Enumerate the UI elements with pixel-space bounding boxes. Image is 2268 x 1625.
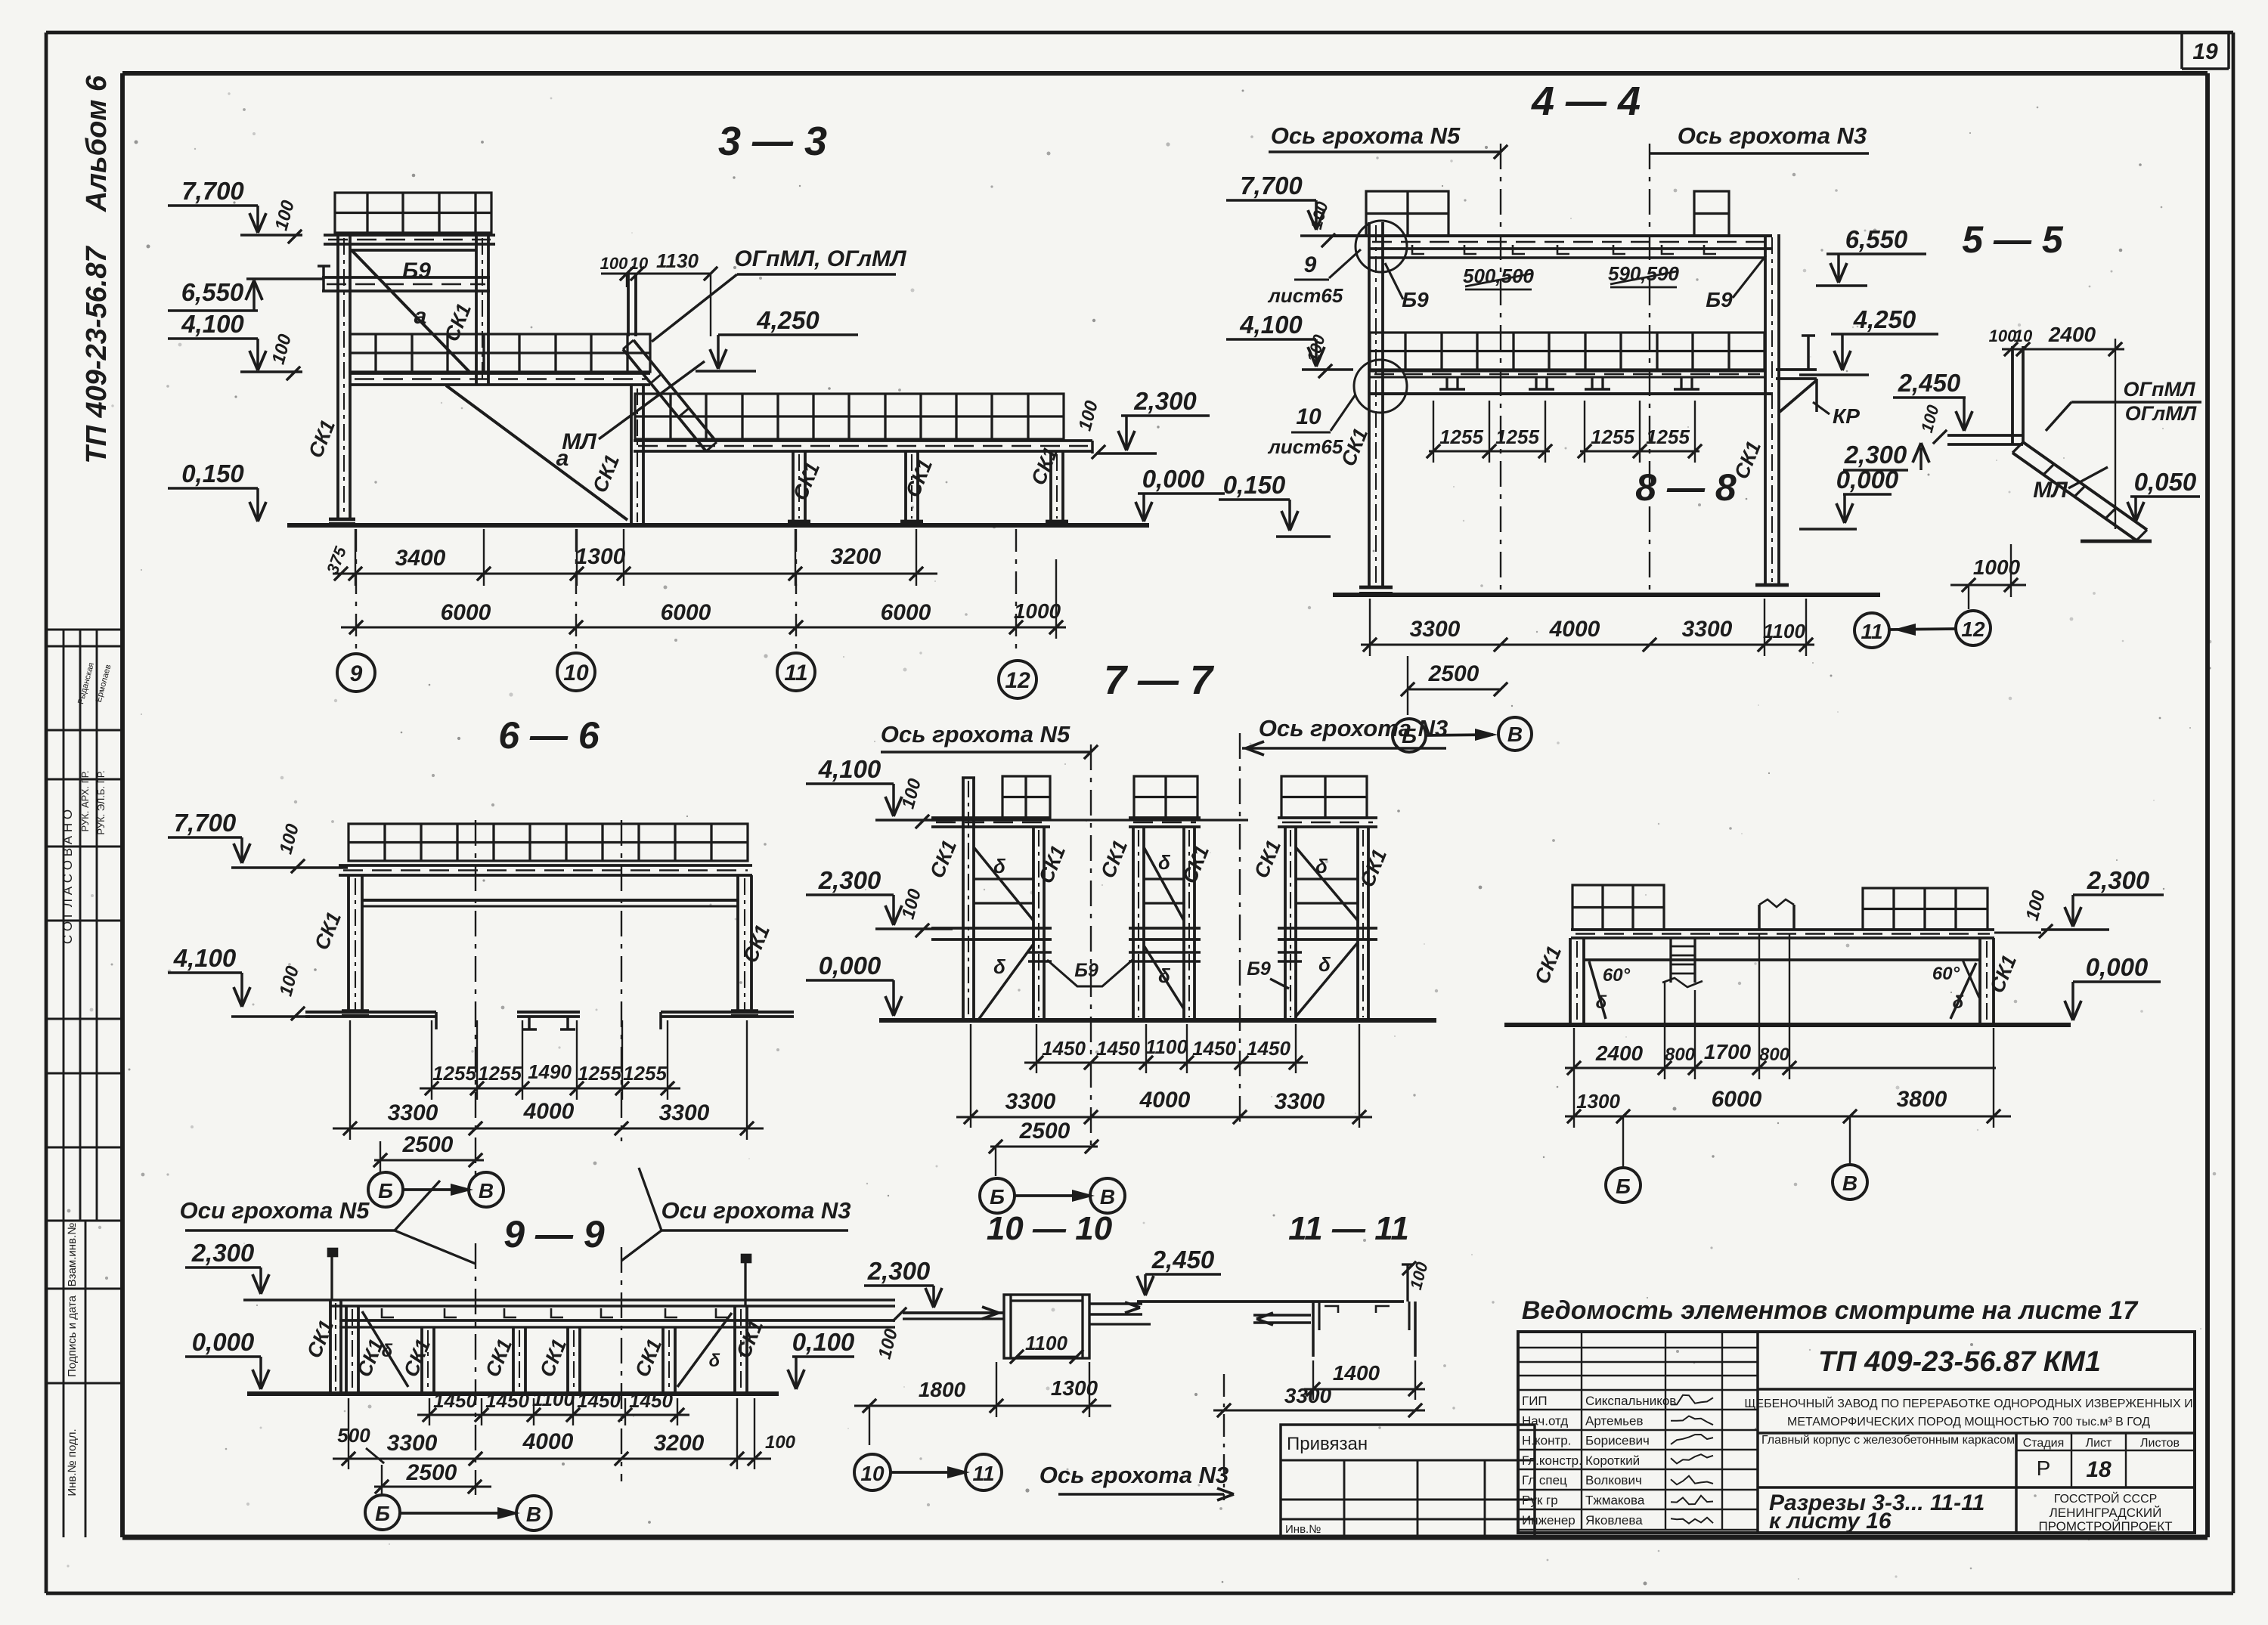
svg-text:2,300: 2,300 xyxy=(191,1239,255,1267)
svg-text:РУК. АРХ. ГР.: РУК. АРХ. ГР. xyxy=(79,771,91,832)
ground line 8-8 xyxy=(1504,1023,2071,1027)
svg-text:Листов: Листов xyxy=(2140,1437,2180,1450)
svg-text:1255: 1255 xyxy=(578,1062,621,1085)
dim 2500 9-9 xyxy=(374,1485,491,1487)
column SK1 under slab 2 xyxy=(904,451,907,522)
witness B circle 7-7 xyxy=(995,1147,996,1176)
svg-text:Главный корпус с железобетонны: Главный корпус с железобетонным каркасом xyxy=(1761,1434,2015,1447)
svg-text:3300: 3300 xyxy=(1284,1384,1332,1407)
tower1 right column 7-7 xyxy=(1032,827,1035,1020)
svg-text:1255: 1255 xyxy=(623,1062,667,1085)
stair post 3-3 xyxy=(627,274,630,336)
svg-text:3300: 3300 xyxy=(659,1100,710,1125)
svg-text:к листу 16: к листу 16 xyxy=(1769,1509,1892,1534)
tower2 top beam 7-7 xyxy=(1129,816,1201,819)
tower1 band lines 7-7 xyxy=(974,877,1033,880)
grid circle 11 xyxy=(777,653,815,691)
floor beam strip 4.100 xyxy=(350,372,650,375)
svg-text:1300: 1300 xyxy=(575,544,626,569)
direction arrow B-V 9-9 xyxy=(400,1512,516,1515)
column C 9-9 xyxy=(512,1327,515,1394)
svg-text:4000: 4000 xyxy=(523,1099,575,1124)
svg-text:1300: 1300 xyxy=(1051,1376,1098,1400)
grid circle B 8-8 xyxy=(1622,1116,1624,1168)
grid circle V 4-4 xyxy=(1498,717,1532,751)
bracket KR 4-4 xyxy=(1780,380,1817,412)
svg-text:10: 10 xyxy=(1296,404,1321,429)
dim row 375 3400 1300 3200 xyxy=(333,572,937,574)
roof slab 6-6 xyxy=(349,824,748,861)
svg-text:МЛ: МЛ xyxy=(2033,478,2068,503)
walkway top line 11-11 xyxy=(1137,1300,1404,1303)
dim 2500 6-6 xyxy=(374,1159,484,1161)
hanging ladder 8-8 xyxy=(1669,938,1672,983)
svg-text:60°: 60° xyxy=(1932,964,1960,984)
deck top lines 9-9 xyxy=(330,1298,895,1302)
floor beam line 4-4 xyxy=(1368,392,1772,395)
left channel arrow 11-11 xyxy=(1253,1314,1311,1317)
column base plate grid 9 xyxy=(329,518,355,522)
svg-text:6000: 6000 xyxy=(1712,1087,1762,1112)
joint detail circle 9 xyxy=(1356,221,1407,272)
tower2 top slab 7-7 xyxy=(1134,776,1198,818)
svg-text:4,100: 4,100 xyxy=(181,310,244,338)
dim 3300 11-11 xyxy=(1213,1409,1425,1411)
tower2 diagonal upper 7-7 xyxy=(1144,847,1184,921)
svg-text:ЛЕНИНГРАДСКИЙ: ЛЕНИНГРАДСКИЙ xyxy=(2050,1506,2162,1520)
witness 11-11 xyxy=(1312,1360,1314,1400)
grid circle 12 5-5 xyxy=(1956,611,1991,645)
svg-text:3300: 3300 xyxy=(388,1100,438,1125)
grid circle B 9-9 xyxy=(365,1495,400,1530)
svg-text:Б9: Б9 xyxy=(1247,958,1271,980)
svg-text:12: 12 xyxy=(1961,617,1985,641)
right handrail post 9-9 xyxy=(744,1261,746,1306)
svg-text:0,000: 0,000 xyxy=(1142,465,1205,493)
svg-text:1255: 1255 xyxy=(478,1062,522,1085)
svg-text:РУК. ЭЛ.Б. ГР.: РУК. ЭЛ.Б. ГР. xyxy=(95,770,107,834)
axis line N5 9-9 xyxy=(475,1243,476,1495)
svg-text:1000: 1000 xyxy=(1973,556,2021,579)
svg-text:ГОССТРОЙ СССР: ГОССТРОЙ СССР xyxy=(2054,1491,2158,1506)
svg-text:δ: δ xyxy=(1158,964,1170,987)
svg-text:100: 100 xyxy=(600,254,628,273)
svg-text:6,550: 6,550 xyxy=(1845,225,1908,253)
direction arrow B-V 7-7 xyxy=(1015,1194,1090,1197)
portal left column 6-6 xyxy=(347,875,350,1014)
svg-text:Подпись и дата: Подпись и дата xyxy=(66,1295,79,1377)
deck bottom lines 9-9 xyxy=(339,1319,895,1322)
svg-text:2500: 2500 xyxy=(1428,661,1479,686)
base plate col 3 xyxy=(1046,520,1068,524)
base plate col 2 xyxy=(900,520,923,524)
svg-text:1450: 1450 xyxy=(1042,1037,1086,1060)
svg-text:11: 11 xyxy=(972,1462,994,1485)
right column base 4-4 xyxy=(1755,583,1789,587)
svg-text:0,000: 0,000 xyxy=(192,1328,255,1356)
svg-text:3300: 3300 xyxy=(1275,1089,1325,1114)
column D 9-9 xyxy=(566,1327,569,1394)
column A 9-9 xyxy=(345,1306,348,1394)
left end post 9-9 xyxy=(329,1300,332,1394)
svg-text:2,450: 2,450 xyxy=(1151,1246,1215,1274)
svg-text:1130: 1130 xyxy=(656,249,699,272)
svg-text:В: В xyxy=(1100,1185,1115,1209)
left lower stamp table xyxy=(46,1221,122,1537)
svg-text:Оси грохота N5: Оси грохота N5 xyxy=(180,1197,370,1224)
svg-text:1450: 1450 xyxy=(1247,1037,1290,1060)
middle chute 8-8 xyxy=(1758,905,1761,930)
svg-text:1450: 1450 xyxy=(577,1389,621,1412)
dim 1300 6000 3800 8-8 xyxy=(1565,1115,2011,1117)
witness lines 7-7 upper dims xyxy=(1036,1024,1037,1073)
roof beam 4-4 xyxy=(1333,234,1772,237)
svg-text:11 — 11: 11 — 11 xyxy=(1288,1210,1409,1247)
title block staff rows xyxy=(1518,1390,1758,1530)
svg-text:11: 11 xyxy=(784,661,807,686)
svg-text:7,700: 7,700 xyxy=(181,177,244,205)
floor slab 4.100 4-4 xyxy=(1370,333,1765,370)
svg-text:3300: 3300 xyxy=(387,1431,438,1456)
svg-text:1255: 1255 xyxy=(1646,426,1690,448)
svg-text:Борисевич: Борисевич xyxy=(1585,1434,1650,1448)
diagonal brace a lower xyxy=(446,385,627,520)
svg-text:2400: 2400 xyxy=(1595,1042,1644,1065)
witness lines upper dims 3-3 xyxy=(355,529,356,586)
dim 2400 800 1700 800 8-8 xyxy=(1565,1066,1996,1069)
svg-text:0,150: 0,150 xyxy=(181,460,244,487)
tower2 right column 7-7 xyxy=(1182,827,1185,1020)
main dim row 6000 6000 6000 1000 xyxy=(341,626,1066,628)
svg-text:2,300: 2,300 xyxy=(1133,387,1197,415)
tower1 top beam 7-7 xyxy=(931,816,1050,819)
dim 1255 1255 right 4-4 xyxy=(1580,450,1699,452)
svg-text:6,550: 6,550 xyxy=(181,278,244,306)
tower3 band lines 7-7 xyxy=(1296,877,1358,880)
svg-text:В: В xyxy=(526,1503,541,1526)
svg-text:лист65: лист65 xyxy=(1267,284,1343,307)
roof slab block right 4-4 xyxy=(1694,191,1729,236)
middle pedestal 6-6 xyxy=(517,1011,580,1014)
svg-text:4000: 4000 xyxy=(522,1429,574,1454)
svg-text:100: 100 xyxy=(765,1432,796,1453)
svg-text:7,700: 7,700 xyxy=(1240,172,1303,200)
svg-text:В: В xyxy=(1507,723,1523,746)
tower3 collar 7-7 xyxy=(1278,951,1302,954)
svg-text:4,100: 4,100 xyxy=(173,944,237,972)
svg-text:С О Г Л А С О В А Н О: С О Г Л А С О В А Н О xyxy=(60,809,75,944)
witness lines 4-4 dims xyxy=(1369,599,1371,656)
svg-text:8 — 8: 8 — 8 xyxy=(1635,466,1737,509)
svg-text:10: 10 xyxy=(860,1462,885,1485)
grid circle V 6-6 xyxy=(469,1172,503,1207)
svg-text:Ось грохота N3: Ось грохота N3 xyxy=(1259,715,1448,741)
svg-text:3200: 3200 xyxy=(831,544,881,569)
svg-text:1800: 1800 xyxy=(919,1378,966,1401)
svg-text:4,100: 4,100 xyxy=(818,755,881,783)
tower3 left column 7-7 xyxy=(1284,827,1287,1020)
section 3-3 ground line xyxy=(287,523,1149,528)
svg-text:2500: 2500 xyxy=(402,1132,454,1157)
direction arrow B to V 4-4 xyxy=(1426,735,1493,735)
svg-text:ГИП: ГИП xyxy=(1522,1394,1548,1408)
svg-text:ТП 409-23-56.87 КМ1: ТП 409-23-56.87 КМ1 xyxy=(1818,1346,2101,1378)
slab hook marks 4-4 xyxy=(1412,245,1424,254)
svg-text:1100: 1100 xyxy=(532,1388,575,1410)
svg-text:6000: 6000 xyxy=(881,600,931,625)
svg-text:Б9: Б9 xyxy=(402,258,431,283)
dim 1450x4 1100 9-9 xyxy=(417,1413,689,1416)
svg-text:Ось грохота N5: Ось грохота N5 xyxy=(881,721,1070,747)
dim 3300 4000 3300 7-7 xyxy=(956,1116,1372,1118)
column B 9-9 xyxy=(420,1327,423,1394)
column E 9-9 xyxy=(661,1327,665,1394)
tower2 left column 7-7 xyxy=(1132,827,1135,1020)
svg-text:Б9: Б9 xyxy=(1074,960,1098,981)
svg-text:Лист: Лист xyxy=(2086,1437,2112,1450)
beam at 6.550 xyxy=(322,276,490,279)
svg-text:2,300: 2,300 xyxy=(1844,441,1907,469)
svg-text:Короткий: Короткий xyxy=(1585,1453,1640,1468)
svg-text:1000: 1000 xyxy=(1014,599,1061,623)
roof beam strip 3-3 xyxy=(324,234,495,237)
direction arrow 12 to 11 xyxy=(1890,629,1955,630)
svg-text:9: 9 xyxy=(1304,252,1317,277)
svg-text:6 — 6: 6 — 6 xyxy=(498,714,600,757)
tower3 top beam 7-7 xyxy=(1278,816,1377,819)
witness 7-7 main dims xyxy=(970,1024,971,1128)
inner column upper frame 3-3 xyxy=(475,235,478,385)
svg-text:3300: 3300 xyxy=(1410,617,1461,642)
left column 8-8 xyxy=(1569,938,1572,1023)
column SK1 grid 9 xyxy=(336,235,339,519)
svg-text:КР: КР xyxy=(1833,404,1860,428)
handrail post 4-4 xyxy=(1807,336,1810,370)
svg-text:Оси грохота N3: Оси грохота N3 xyxy=(661,1197,851,1224)
deck hook marks 9-9 xyxy=(382,1308,394,1317)
svg-text:1450: 1450 xyxy=(433,1389,477,1412)
dim row 3300 4000 3300 1100 4-4 xyxy=(1361,643,1814,645)
roof slab 3-3 xyxy=(335,193,491,233)
svg-text:Р: Р xyxy=(2037,1456,2051,1480)
svg-text:2500: 2500 xyxy=(406,1460,457,1485)
axis line N3 4-4 xyxy=(1649,144,1650,593)
svg-text:ОГлМЛ: ОГлМЛ xyxy=(2125,402,2198,425)
svg-text:10 — 10: 10 — 10 xyxy=(987,1210,1113,1247)
svg-text:3200: 3200 xyxy=(654,1431,705,1456)
svg-text:Ось грохота N3: Ось грохота N3 xyxy=(1678,122,1867,149)
svg-text:19: 19 xyxy=(2192,39,2218,64)
grid circle V 9-9 xyxy=(516,1496,551,1531)
axis leader fork N3 9-9 xyxy=(639,1168,661,1230)
left handrail post 9-9 xyxy=(330,1255,333,1300)
slab 2.300 3-3 xyxy=(635,394,1064,439)
left approval stamp table xyxy=(46,630,122,1221)
svg-text:3 — 3: 3 — 3 xyxy=(718,119,827,164)
axis line N3 11-11 xyxy=(1223,1374,1225,1500)
svg-text:Б: Б xyxy=(375,1502,390,1525)
axis line N3 7-7 xyxy=(1239,733,1241,1126)
tower1 collar 7-7 xyxy=(1028,951,1052,954)
svg-text:ПРОМСТРОЙПРОЕКТ: ПРОМСТРОЙПРОЕКТ xyxy=(2038,1519,2172,1534)
stair flight 5-5 xyxy=(2023,442,2147,530)
svg-text:δ: δ xyxy=(993,955,1005,978)
svg-text:4000: 4000 xyxy=(1139,1088,1191,1113)
right post 11-11 xyxy=(1406,1264,1408,1302)
axis N5 6-6 xyxy=(475,820,476,1179)
axis N3 6-6 xyxy=(621,820,622,1141)
svg-text:0,000: 0,000 xyxy=(2086,953,2149,981)
svg-text:9: 9 xyxy=(350,661,363,686)
svg-text:В: В xyxy=(1842,1172,1857,1195)
svg-text:a: a xyxy=(414,304,427,329)
svg-text:Ось грохота N5: Ось грохота N5 xyxy=(1271,122,1461,149)
svg-text:0,000: 0,000 xyxy=(819,952,881,980)
svg-text:18: 18 xyxy=(2086,1457,2112,1482)
svg-text:4 — 4: 4 — 4 xyxy=(1531,79,1641,124)
svg-text:Волкович: Волкович xyxy=(1585,1473,1642,1487)
svg-text:60°: 60° xyxy=(1603,965,1631,986)
roof beam strip 6-6 xyxy=(339,864,752,867)
left column 4-4 xyxy=(1368,222,1371,587)
svg-text:2,450: 2,450 xyxy=(1898,369,1961,397)
grid circle V 7-7 xyxy=(1090,1178,1125,1213)
svg-text:δ: δ xyxy=(1596,992,1607,1013)
svg-text:3400: 3400 xyxy=(395,546,446,571)
base plate col 1 xyxy=(788,520,810,524)
floor slab 4.100 xyxy=(350,334,650,372)
ground line 9-9 xyxy=(247,1391,779,1396)
grid circle 12 xyxy=(999,661,1036,698)
svg-text:4,100: 4,100 xyxy=(1239,311,1303,339)
right column 4-4 xyxy=(1764,234,1767,585)
svg-text:1255: 1255 xyxy=(1591,426,1634,448)
direction arrow 10 to 11 xyxy=(891,1471,965,1474)
svg-text:ТП 409-23-56.87: ТП 409-23-56.87 xyxy=(81,246,113,464)
tower1 left column 7-7 xyxy=(962,778,965,1020)
svg-text:500: 500 xyxy=(337,1424,370,1447)
platform 2.450 5-5 xyxy=(1947,434,2023,437)
witness 6-6 main xyxy=(349,1020,351,1140)
svg-text:100: 100 xyxy=(1989,327,2017,345)
svg-text:1450: 1450 xyxy=(629,1389,673,1412)
svg-text:4,250: 4,250 xyxy=(756,306,820,334)
svg-text:3300: 3300 xyxy=(1005,1089,1056,1114)
dim 1255 1255 1490 1255 1255 6-6 xyxy=(420,1087,680,1089)
stair flight 3-3 xyxy=(634,340,717,442)
portal top beam 6-6 xyxy=(362,899,738,902)
ground line 7-7 xyxy=(879,1018,1436,1023)
svg-text:2,300: 2,300 xyxy=(867,1257,931,1285)
deck band 8-8 xyxy=(1571,928,1994,931)
svg-text:1255: 1255 xyxy=(1495,426,1539,448)
axis leader fork N5 9-9 xyxy=(395,1181,440,1230)
stair base 5-5 xyxy=(2081,540,2152,543)
svg-text:Ось грохота N3: Ось грохота N3 xyxy=(1039,1462,1228,1488)
svg-text:Б9: Б9 xyxy=(1402,288,1429,311)
svg-text:2400: 2400 xyxy=(2048,323,2096,346)
svg-text:Тжмакова: Тжмакова xyxy=(1585,1493,1645,1508)
svg-text:Б: Б xyxy=(990,1185,1005,1209)
axis line N5 7-7 xyxy=(1090,744,1092,1147)
title block outer xyxy=(1518,1332,2195,1533)
axis line N5 4-4 xyxy=(1500,144,1501,593)
svg-text:МЕТАМОРФИЧЕСКИХ ПОРОД МОЩНОСТ: МЕТАМОРФИЧЕСКИХ ПОРОД МОЩНОСТЬЮ 700 тыс.… xyxy=(1787,1416,2150,1428)
stair top post 5-5 xyxy=(2011,346,2014,444)
grid circle 10 xyxy=(557,653,595,691)
svg-text:7,700: 7,700 xyxy=(174,809,237,837)
svg-text:1700: 1700 xyxy=(1704,1040,1752,1063)
witness lines grid 3-3 xyxy=(355,529,357,652)
grid circle B 7-7 xyxy=(980,1178,1015,1213)
svg-text:1100: 1100 xyxy=(1763,620,1805,642)
dim 2500 4-4 xyxy=(1408,688,1501,690)
diagonal brace a upper xyxy=(352,250,469,372)
svg-text:2,300: 2,300 xyxy=(818,866,881,894)
svg-text:1450: 1450 xyxy=(1096,1037,1140,1060)
lower inner column 3-3 xyxy=(630,385,633,525)
title block left grid top rows xyxy=(1518,1332,1758,1533)
svg-text:ОГпМЛ: ОГпМЛ xyxy=(2123,378,2196,401)
tower1 2.300 beam 7-7 xyxy=(931,927,1052,930)
svg-text:Инв.№: Инв.№ xyxy=(1285,1523,1321,1536)
dim 3300 4000 3300 6-6 xyxy=(333,1127,764,1129)
svg-text:0,100: 0,100 xyxy=(792,1328,855,1356)
svg-text:6000: 6000 xyxy=(661,600,711,625)
dim 2500 7-7 xyxy=(990,1145,1098,1147)
page number box 19 xyxy=(2182,32,2229,69)
svg-text:Б9: Б9 xyxy=(1706,288,1733,311)
svg-text:800: 800 xyxy=(1665,1045,1696,1065)
svg-text:Б: Б xyxy=(1616,1175,1631,1198)
svg-text:Инв.№ подл.: Инв.№ подл. xyxy=(66,1428,79,1496)
floor lower strip 4-4 xyxy=(1370,370,1765,372)
title block stage cells xyxy=(2015,1433,2018,1533)
ceiling line 4-4 xyxy=(1368,256,1765,259)
svg-text:Взам.инв.№: Взам.инв.№ xyxy=(66,1223,79,1287)
beam strip under 2.300 slab xyxy=(634,439,1092,442)
grid circle B 4-4 xyxy=(1393,719,1426,752)
right foot bracket 6-6 xyxy=(661,1011,794,1014)
witness 10-10 xyxy=(869,1406,870,1445)
svg-text:10: 10 xyxy=(563,661,589,686)
tower2 collar 7-7 xyxy=(1129,951,1201,954)
small table privyazan xyxy=(1281,1425,1535,1537)
grid circle 10 xyxy=(854,1454,891,1490)
svg-text:Н.контр.: Н.контр. xyxy=(1522,1434,1571,1448)
grid circle 11 5-5 xyxy=(1854,613,1889,648)
svg-text:1450: 1450 xyxy=(485,1389,529,1412)
svg-text:2,300: 2,300 xyxy=(2087,866,2150,894)
witness lines 8-8 upper dims xyxy=(1664,983,1665,1079)
dim 1800 1300 10-10 xyxy=(854,1404,1111,1407)
direction arrow B-V 6-6 xyxy=(403,1188,469,1191)
svg-text:3800: 3800 xyxy=(1897,1087,1947,1112)
tower2 lower diagonal 7-7 xyxy=(1144,946,1184,1009)
svg-text:δ: δ xyxy=(1953,992,1964,1013)
svg-text:Стадия: Стадия xyxy=(2023,1437,2065,1450)
tower2 band lines 7-7 xyxy=(1144,877,1184,880)
svg-text:ЩЕБЕНОЧНЫЙ ЗАВОД ПО ПЕРЕРАБОТК: ЩЕБЕНОЧНЫЙ ЗАВОД ПО ПЕРЕРАБОТКЕ ОДНОРОДН… xyxy=(1744,1396,2192,1410)
right slab block 8-8 xyxy=(1863,888,1988,930)
svg-text:11: 11 xyxy=(1861,620,1882,643)
beam B9 line xyxy=(350,249,476,252)
axis line N3 9-9 xyxy=(621,1247,622,1481)
roof slab block left 4-4 xyxy=(1366,191,1448,236)
svg-text:1255: 1255 xyxy=(1439,426,1483,448)
witness lines 6-6 dims xyxy=(431,1020,432,1100)
tower3 diagonal upper 7-7 xyxy=(1296,847,1358,921)
